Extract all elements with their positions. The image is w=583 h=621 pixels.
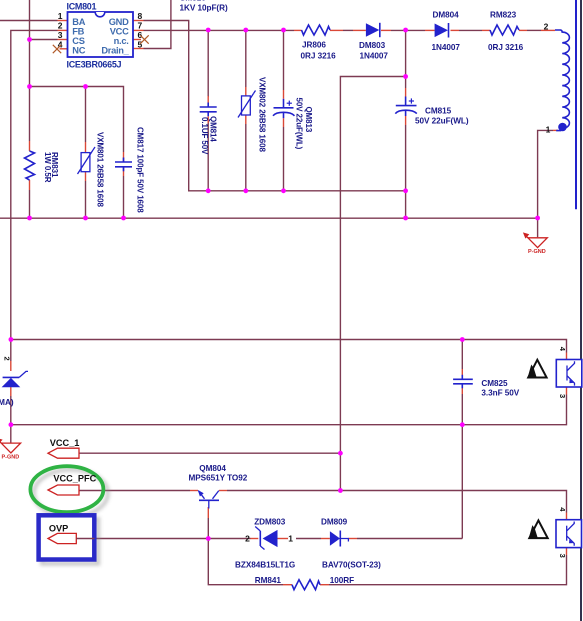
wire QM814 bottom — [207, 121, 209, 191]
wire transformer pin1 down to P-GND1 — [538, 130, 553, 237]
pin stub IC pin8 — [133, 20, 144, 22]
wire QM804 base down to RM841 row — [208, 518, 283, 585]
transformer winding — [555, 30, 569, 131]
pin stub CM817 top — [123, 152, 125, 162]
pin stub QM814 bottom — [207, 116, 209, 123]
port VCC_PFC — [48, 473, 97, 495]
svg-text:1N4007: 1N4007 — [432, 43, 461, 52]
pin stub VXM801 bottom — [85, 172, 87, 182]
svg-text:Drain_: Drain_ — [101, 46, 129, 56]
pin stub RM823 right — [519, 29, 527, 31]
svg-text:8: 8 — [138, 11, 143, 21]
wire CM817 bottom — [123, 176, 125, 218]
capacitor QM813 plus sign — [287, 101, 292, 106]
wire node FB below zener — [10, 396, 12, 443]
svg-text:DM803: DM803 — [359, 41, 386, 50]
svg-text:2: 2 — [2, 357, 11, 361]
svg-text:5(MA): 5(MA) — [0, 398, 14, 407]
wire GND pin8 right and down to rail y191 — [144, 21, 406, 191]
svg-text:QM813: QM813 — [304, 107, 313, 133]
port VCC_1 — [48, 438, 79, 458]
wire Drain pin5 up to top edge — [144, 0, 171, 49]
zener ZDM803 — [255, 527, 277, 550]
wire VCC rail y30 — [144, 29, 295, 31]
wire VXM802 bottom — [245, 124, 247, 191]
svg-text:CM816: CM816 — [180, 0, 207, 3]
wire CS pin3 to vertical — [30, 39, 58, 41]
svg-text:DM804: DM804 — [433, 11, 460, 20]
svg-text:VXM802 26B58 1608: VXM802 26B58 1608 — [258, 77, 267, 152]
pin stub TVS bottom — [10, 387, 12, 396]
svg-text:MPS651Y TO92: MPS651Y TO92 — [189, 474, 248, 483]
svg-text:3.3nF 50V: 3.3nF 50V — [481, 389, 519, 398]
svg-text:1KV 10pF(R): 1KV 10pF(R) — [180, 4, 228, 13]
svg-text:CM815: CM815 — [425, 107, 452, 116]
svg-text:50V 22uF(WL): 50V 22uF(WL) — [415, 117, 469, 126]
svg-text:VXM801 26B58 1608: VXM801 26B58 1608 — [96, 132, 105, 207]
svg-text:RM823: RM823 — [490, 11, 517, 20]
diode DM809 — [330, 531, 349, 547]
sheet right border — [580, 0, 582, 621]
svg-text:RM841: RM841 — [255, 576, 282, 585]
resistor RM841 — [292, 580, 320, 590]
pin stub IC pin3 — [58, 39, 68, 41]
pin stub RM831 top — [29, 141, 31, 151]
pin stub opto1 pin3 — [566, 387, 568, 395]
IC U ICM801 body — [68, 12, 134, 57]
pin stub CM825 bottom — [461, 384, 463, 394]
pin stub JR806 right — [330, 29, 343, 31]
pin stub QM814 top — [207, 96, 209, 103]
svg-text:ICE3BR0665J: ICE3BR0665J — [67, 60, 122, 70]
pin stub IC pin2 — [58, 29, 68, 31]
diode DM803 — [366, 23, 380, 37]
wire QM814 top — [207, 30, 209, 97]
svg-text:1: 1 — [288, 534, 293, 544]
pin stub DM809 right — [348, 538, 357, 540]
pin stub QM804 collector — [219, 490, 227, 492]
svg-text:CM817 100pF 50V 1608: CM817 100pF 50V 1608 — [136, 127, 145, 213]
pin stub DM803 left — [353, 29, 366, 31]
capacitor QM813 electrolytic — [273, 99, 295, 118]
svg-text:0.1UF 50V: 0.1UF 50V — [200, 117, 209, 155]
pin stub RM823 left — [482, 29, 490, 31]
svg-text:BZX84B15LT1G: BZX84B15LT1G — [235, 561, 295, 570]
svg-text:0RJ 3216: 0RJ 3216 — [488, 43, 524, 52]
pin stub IC pin7 — [133, 29, 144, 31]
pin stub DM804 left — [425, 29, 435, 31]
wire QM813 top — [283, 30, 285, 90]
pin stub QM813 bottom — [283, 118, 285, 127]
wire opto1 pin3 down to rail y424.7 — [11, 395, 567, 425]
transistor QM804 — [198, 490, 219, 509]
pin stub CM815 bottom — [405, 116, 407, 125]
wire RM841 out to opto2 pin3 — [329, 555, 567, 585]
resistor JR806 — [302, 25, 331, 35]
pin stub IC pin4 — [60, 48, 68, 50]
varistor VXM801 — [78, 147, 96, 174]
svg-text:VCC_PFC: VCC_PFC — [53, 473, 96, 483]
pin stub RM841 right — [320, 584, 329, 586]
wire CS vertical from top edge down to RM831 — [29, 0, 31, 141]
pin stub transformer pin1 — [553, 129, 558, 131]
wire RM831 bottom to rail — [29, 190, 31, 218]
svg-text:FB: FB — [72, 27, 84, 37]
svg-text:OVP: OVP — [49, 523, 68, 533]
pin stub transformer pin2 — [541, 29, 555, 31]
svg-text:GND: GND — [109, 17, 129, 27]
capacitor CM825 — [453, 375, 473, 389]
wire VXM801 bottom — [85, 181, 87, 218]
pin stub CM817 bottom — [123, 167, 125, 177]
pin stub VXM801 top — [85, 142, 87, 153]
wire y77 from CM815 node to vertical x340 — [340, 77, 405, 491]
TVS zener DZM (left edge) — [2, 371, 28, 387]
svg-text:ZDM803: ZDM803 — [254, 518, 286, 527]
varistor VXM802 — [238, 91, 256, 118]
wire segment DM804 to RM823 — [459, 29, 482, 31]
capacitor CM815 electrolytic — [395, 97, 417, 117]
svg-text:VCC: VCC — [110, 27, 129, 37]
pin stub RM841 left — [283, 584, 292, 586]
P-GND symbol 2 — [0, 438, 21, 453]
no-connect X pin4 — [53, 45, 61, 53]
pin stub CM825 top — [461, 369, 463, 379]
svg-text:6: 6 — [138, 30, 143, 40]
svg-text:CM825: CM825 — [481, 379, 508, 388]
svg-text:2: 2 — [544, 22, 549, 32]
svg-text:ICM801: ICM801 — [67, 2, 97, 12]
pin stub VXM802 bottom — [245, 115, 247, 124]
svg-text:100RF: 100RF — [330, 576, 354, 585]
svg-text:P-GND: P-GND — [2, 455, 20, 461]
svg-text:1: 1 — [546, 125, 551, 135]
svg-text:1W 0.5R: 1W 0.5R — [43, 152, 52, 183]
no-connect X pin6 — [140, 35, 148, 43]
pin stub opto1 pin4 — [566, 353, 568, 360]
pin stub RM831 bottom — [29, 180, 31, 190]
pin stub QM804 base — [207, 507, 209, 518]
pin stub IC pin6 — [133, 39, 141, 41]
pin stub opto2 pin4 — [566, 513, 568, 520]
diode DM804 — [435, 23, 449, 38]
capacitor CM815 plus sign — [409, 98, 414, 103]
capacitor QM814 — [200, 103, 217, 117]
wire segment RM823 to transformer pin2 — [527, 29, 541, 31]
transformer polarity dot — [558, 123, 567, 132]
svg-text:BA: BA — [72, 17, 85, 27]
green ellipse annotation — [34, 470, 108, 517]
pin stub DM803 right — [381, 29, 391, 31]
wire rail y339.5 to opto1 pin4 — [11, 340, 567, 353]
pin stub QM804 emitter — [190, 490, 198, 492]
pin stub DM809 left — [321, 538, 330, 540]
wire ZDM803 to DM809 — [296, 538, 321, 540]
svg-text:1: 1 — [58, 11, 63, 21]
wire segment JR806 to DM803 — [343, 29, 353, 31]
svg-text:3: 3 — [58, 30, 63, 40]
safety triangle marker 1 — [528, 360, 547, 378]
pin stub DM804 right — [451, 29, 460, 31]
safety triangle marker 2 — [529, 520, 548, 538]
svg-text:50V 22uF(WL): 50V 22uF(WL) — [295, 98, 304, 150]
wire collector row to opto2 pin4 — [227, 491, 567, 513]
wire DM809 out to vertical x462 — [357, 538, 462, 540]
resistor RM823 — [490, 25, 519, 35]
wire CM825 top branch — [461, 340, 463, 370]
svg-text:5: 5 — [138, 40, 143, 50]
svg-text:P-GND: P-GND — [528, 249, 546, 255]
svg-text:1N4007: 1N4007 — [360, 52, 389, 61]
pin stub VXM802 top — [245, 87, 247, 96]
pin stub opto2 pin3 — [566, 548, 568, 555]
wire QM813 bottom — [283, 127, 285, 191]
wire CM815 bottom through rails — [405, 125, 407, 218]
pin stub CM815 top — [405, 88, 407, 97]
wire CM825 bottom branch down to DM809 row — [461, 394, 463, 539]
wire OVP row — [79, 538, 251, 540]
wire VXM802 top — [245, 30, 247, 87]
wire VCC_1 row — [79, 452, 340, 454]
wire VXM801 top — [85, 87, 87, 143]
wire segment DM803 to DM804 — [391, 29, 425, 31]
pin stub QM813 top — [283, 90, 285, 99]
svg-text:BAV70(SOT-23): BAV70(SOT-23) — [322, 561, 381, 570]
optocoupler lower — [556, 520, 582, 548]
wire OVP tag to row (over box) — [76, 538, 94, 540]
svg-text:3: 3 — [558, 554, 567, 558]
svg-text:JR806: JR806 — [302, 41, 326, 50]
svg-text:2: 2 — [245, 534, 250, 544]
pin stub IC pin1 — [58, 20, 68, 22]
blue box annotation — [42, 519, 98, 563]
wire VCC_PFC row emitter side — [79, 490, 190, 492]
resistor RM831 vertical — [25, 151, 35, 180]
svg-text:VCC_1: VCC_1 — [50, 438, 80, 448]
wire CM815 branch from rail y30 — [405, 30, 407, 88]
svg-text:0RJ 3216: 0RJ 3216 — [301, 52, 337, 61]
svg-text:3: 3 — [558, 394, 567, 398]
svg-text:NC: NC — [72, 46, 85, 56]
wire rail y87 — [30, 87, 124, 153]
wire ground rail y218 — [0, 217, 538, 219]
pin stub JR806 left — [294, 29, 302, 31]
pin stub TVS top — [10, 361, 12, 371]
pin stub ZDM803 left — [251, 538, 259, 540]
svg-text:QM804: QM804 — [199, 464, 226, 473]
port OVP — [48, 523, 76, 543]
pin stub IC pin5 — [133, 48, 144, 50]
wire FB pin2 left then down to P-GND2 — [11, 30, 58, 361]
capacitor CM817 — [115, 158, 132, 172]
transformer core — [575, 0, 577, 209]
svg-text:DM809: DM809 — [321, 518, 348, 527]
optocoupler IC830 upper — [556, 360, 582, 388]
wire BA pin1 to left edge — [0, 20, 58, 22]
P-GND symbol 1 — [523, 232, 547, 247]
pin stub ZDM803 right — [278, 538, 289, 540]
